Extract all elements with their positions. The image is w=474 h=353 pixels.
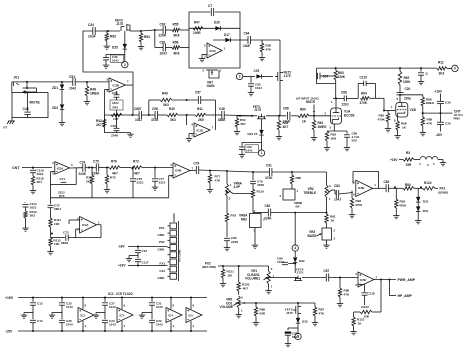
wire R81-VR3: [326, 213, 328, 228]
wire D32-FET4: [294, 263, 296, 273]
capacitor C75: [92, 160, 100, 176]
wire R3-coil: [414, 159, 420, 161]
wire IC4B out: [190, 169, 196, 171]
wire C68 to grid net: [347, 97, 359, 99]
op-amp IC5A: [52, 161, 73, 176]
IC5A feedback loop: [51, 172, 55, 198]
svg-text:J175: J175: [254, 108, 261, 112]
capacitor C71 loop: [51, 168, 77, 185]
capacitor C top: [418, 68, 429, 76]
svg-text:D26: D26: [214, 21, 220, 25]
svg-text:6K8: 6K8: [174, 34, 180, 38]
resistor R62: [398, 68, 411, 85]
svg-text:D33: D33: [302, 320, 308, 324]
wire C61-R56: [166, 47, 173, 49]
svg-text:104U: 104U: [156, 305, 163, 309]
svg-text:220u: 220u: [404, 97, 411, 101]
wire main line stage2: [104, 114, 139, 116]
capacitor C12: [135, 247, 147, 254]
wire to node5: [297, 328, 299, 333]
wire C66-R60: [291, 115, 298, 117]
svg-text:104J: 104J: [255, 86, 262, 90]
capacitor C52: [111, 124, 120, 138]
resistor R65: [378, 111, 390, 123]
svg-text:R79: R79: [231, 214, 237, 218]
svg-text:FX2: FX2: [160, 269, 166, 273]
HP_AMP label: [398, 294, 413, 298]
wire CNT in: [22, 167, 52, 169]
zener ZD4: [416, 202, 429, 213]
transistor FET2 J175: [275, 71, 291, 83]
svg-text:104J: 104J: [246, 149, 253, 153]
pot VR3 bass: [308, 228, 336, 241]
capacitor C119: [30, 168, 44, 177]
ground below R77: [207, 183, 213, 193]
ground below R91: [349, 208, 355, 218]
svg-text:6K8: 6K8: [174, 52, 180, 56]
capacitor C78: [194, 162, 200, 175]
resistor R3: [399, 151, 414, 167]
wire lower tap: [155, 30, 163, 48]
ground below R93: [393, 208, 399, 219]
ground below R52: [234, 127, 240, 135]
wire main to FET1: [237, 115, 257, 117]
connector TO CON1 label: [178, 249, 182, 262]
ground below VR1: [265, 284, 271, 294]
wire C53 stub: [116, 91, 118, 100]
svg-text:ZD3: ZD3: [423, 200, 429, 204]
op-amp IC5D: [356, 272, 378, 287]
node 3: [236, 73, 242, 79]
resistor R118: [31, 173, 44, 185]
svg-text:C61: C61: [160, 41, 166, 45]
svg-text:VOLUME: VOLUME: [220, 305, 233, 309]
op-amp IC3D: [192, 123, 214, 138]
connector CON1 pins: [170, 221, 179, 281]
resistor R86: [254, 303, 266, 316]
svg-text:104J: 104J: [277, 260, 284, 264]
junction riser: [186, 115, 188, 125]
IC4A feedback loop: [97, 225, 102, 238]
svg-text:56R: 56R: [260, 311, 266, 315]
network box 102J R43: [110, 100, 123, 110]
op-amp IC4A: [77, 217, 100, 234]
svg-text:GND: GND: [158, 276, 166, 280]
ground below VR3: [323, 240, 329, 248]
ground below R65: [385, 122, 391, 132]
capacitor C82: [264, 204, 272, 221]
wire FET3 to R54: [130, 30, 163, 31]
wire FET2 source: [279, 82, 281, 116]
wire VR8A gnd: [254, 228, 256, 244]
resistor R52: [235, 116, 246, 127]
svg-text:680J: 680J: [54, 207, 61, 211]
resistor R49: [160, 92, 172, 108]
svg-text:4K7: 4K7: [243, 286, 249, 290]
FX2 return label: [202, 262, 216, 270]
capacitor C80: [224, 236, 239, 244]
svg-text:C48: C48: [219, 107, 225, 111]
svg-text:J175: J175: [297, 271, 304, 275]
wire R55 to box: [180, 29, 189, 31]
zener ZD2: [52, 104, 64, 110]
VR6A wiper: [229, 191, 254, 194]
ground below R45: [276, 130, 282, 140]
wire CNT line: [422, 106, 453, 113]
svg-text:102J: 102J: [30, 206, 37, 210]
wire mute to C48: [27, 93, 29, 112]
wire R40-R41: [178, 114, 195, 116]
resistor R76: [109, 160, 120, 176]
wire IC5B out: [373, 187, 386, 189]
svg-text:R84: R84: [405, 183, 411, 187]
svg-text:4: 4: [294, 246, 296, 250]
resistor R44 10K: [111, 113, 122, 121]
ground below R89: [420, 126, 426, 136]
wire C76 to bus: [132, 181, 134, 198]
wire D24 down: [242, 135, 262, 142]
svg-text:IC3B: IC3B: [113, 84, 120, 88]
capacitors C25 C26: [49, 298, 73, 332]
node 4: [292, 245, 298, 251]
op-amp IC5 power: [186, 298, 202, 332]
resistor R55: [172, 23, 180, 38]
wire C887-C58: [142, 114, 156, 116]
svg-text:104J: 104J: [160, 52, 167, 56]
CNT label: [454, 109, 464, 120]
svg-text:472K: 472K: [151, 118, 159, 122]
svg-text:R56: R56: [173, 41, 179, 45]
svg-text:R76: R76: [111, 160, 117, 164]
svg-text:R49: R49: [162, 92, 168, 96]
capacitor C48: [23, 107, 31, 115]
svg-text:R3: R3: [406, 151, 410, 155]
CNT input label: [12, 166, 20, 170]
svg-text:R122: R122: [362, 305, 370, 309]
svg-text:R124: R124: [424, 181, 432, 185]
svg-text:4K7: 4K7: [37, 180, 43, 184]
svg-text:D25: D25: [112, 46, 118, 50]
grid loop C115: [358, 76, 375, 99]
labels 222J R70: [58, 190, 65, 198]
C114 branch: [24, 201, 26, 204]
IC5B feedback box: [353, 172, 379, 189]
feedback box IC3A: [189, 12, 240, 68]
ground below VR8A: [252, 244, 258, 249]
wire R119 down: [252, 198, 254, 213]
wire C75-R76: [99, 167, 109, 169]
svg-text:47K: 47K: [344, 292, 350, 296]
wire VR2 bottom: [326, 197, 328, 213]
wire R25 to bus: [91, 184, 93, 198]
svg-text:104U: 104U: [66, 305, 73, 309]
svg-text:D32: D32: [299, 259, 305, 263]
ground below C96: [239, 149, 245, 157]
diode D32: [293, 257, 305, 263]
riser to pin2: [76, 229, 80, 238]
svg-text:J175: J175: [284, 74, 291, 78]
resistor R40: [167, 107, 178, 122]
svg-text:IC2 - IC5 TL022: IC2 - IC5 TL022: [108, 292, 133, 296]
svg-text:/77: /77: [3, 126, 8, 130]
capacitor C73: [61, 230, 69, 244]
svg-text:1M: 1M: [228, 273, 233, 277]
svg-text:C12: C12: [142, 249, 148, 253]
svg-text:10uF: 10uF: [88, 35, 96, 39]
svg-text:CNT: CNT: [12, 166, 20, 170]
svg-text:C57: C57: [195, 91, 201, 95]
svg-text:R119: R119: [257, 190, 264, 194]
svg-text:-15V: -15V: [5, 330, 13, 334]
tube V1A ECC83: [325, 100, 355, 130]
wire C36-gnd: [105, 60, 107, 64]
wire FET5-D33: [297, 315, 299, 318]
svg-text:R41: R41: [197, 107, 203, 111]
wire coil-gnd: [438, 160, 443, 162]
capacitor C83: [334, 184, 341, 202]
resistor R88: [338, 278, 350, 298]
wire R41-C49: [206, 114, 222, 116]
svg-text:224K: 224K: [231, 240, 239, 244]
mute loop box: [12, 93, 48, 118]
svg-text:V1B: V1B: [410, 108, 417, 112]
-15V label: [5, 330, 13, 334]
svg-text:C83: C83: [334, 184, 340, 188]
wire FET2 drain: [279, 40, 281, 71]
capacitor C39: [437, 94, 451, 114]
resistor R60: [298, 108, 309, 124]
connector J01 input jack: [12, 76, 19, 93]
wire node3-C29: [243, 75, 255, 77]
svg-text:R63: R63: [110, 35, 116, 39]
capacitor C96 104J: [239, 142, 259, 152]
wire R76-R73: [120, 167, 131, 169]
ground below C36: [103, 64, 109, 69]
svg-text:IC3: IC3: [120, 314, 125, 318]
svg-text:10K: 10K: [364, 315, 370, 319]
wire V1A plate lead: [335, 98, 337, 108]
wire jack tip to C51: [12, 81, 73, 83]
wire zener branch: [61, 82, 63, 84]
+16V heater label: [390, 158, 398, 162]
resistor R81: [325, 214, 336, 223]
wire C64-FET2: [250, 39, 280, 41]
svg-text:C117: C117: [142, 261, 149, 265]
resistor R87: [313, 303, 325, 316]
svg-text:15R: 15R: [406, 163, 412, 167]
svg-text:GND: GND: [158, 247, 166, 251]
svg-text:BASS: BASS: [308, 234, 317, 238]
svg-text:C115: C115: [360, 76, 368, 80]
inductor L1: [419, 157, 438, 167]
svg-text:R40: R40: [169, 107, 175, 111]
svg-text:C78: C78: [194, 162, 200, 166]
+16V label mid: [118, 264, 126, 268]
svg-text:P62: P62: [159, 240, 165, 244]
capacitor C64: [243, 32, 250, 49]
wire grid to V1B: [375, 98, 395, 110]
wire branch to D25: [124, 31, 126, 44]
pot VR5 volume: [220, 296, 246, 313]
wire R79-C80: [226, 222, 228, 237]
svg-text:C52: C52: [111, 124, 117, 128]
ground below R63: [104, 41, 110, 49]
svg-text:FX1: FX1: [160, 262, 166, 266]
box rail R47 D26: [189, 27, 240, 29]
wire feedback IC5D: [372, 280, 381, 313]
wire ZD2-gnd: [61, 110, 63, 121]
resistor R42: [96, 119, 106, 127]
svg-text:470K: 470K: [399, 203, 407, 207]
svg-text:VOLUME1: VOLUME1: [245, 277, 260, 281]
svg-text:47K: 47K: [427, 121, 433, 125]
svg-text:C887: C887: [134, 107, 142, 111]
svg-text:IC4A: IC4A: [82, 223, 88, 227]
wire C78 right: [199, 170, 269, 172]
diode D26: [214, 21, 221, 31]
svg-text:C48: C48: [23, 107, 29, 111]
capacitor C51: [69, 75, 76, 91]
ground below ZD2: [59, 121, 65, 126]
resistor R11: [437, 61, 447, 76]
ground below R92: [324, 141, 330, 151]
+15V label: [5, 296, 14, 300]
wire IC4A plus stub: [69, 220, 80, 224]
svg-text:224K: 224K: [92, 172, 100, 176]
resistor R68: [396, 121, 407, 130]
svg-text:3K2: 3K2: [30, 214, 36, 218]
wire C62-R55: [166, 29, 173, 31]
resistor R41: [195, 107, 206, 122]
svg-text:470K: 470K: [360, 101, 368, 105]
capacitor C86 4u7: [344, 131, 360, 143]
svg-text:R60: R60: [300, 108, 306, 112]
wire R56 to box: [180, 47, 189, 49]
svg-text:C67: C67: [323, 75, 329, 79]
svg-text:2K5: 2K5: [86, 179, 92, 183]
wire IC3B feedback right: [132, 85, 134, 115]
svg-text:HP_AMP: HP_AMP: [398, 294, 413, 298]
resistor R77: [208, 171, 221, 184]
node 5: [295, 333, 301, 339]
svg-text:IC5: IC5: [189, 314, 194, 318]
wire bottom of block: [104, 132, 130, 134]
wire C91-R80 node: [272, 171, 327, 173]
svg-text:ZD1: ZD1: [52, 86, 58, 90]
diode C29: [254, 69, 262, 79]
svg-text:C91: C91: [266, 164, 272, 168]
svg-text:IC5A: IC5A: [57, 167, 63, 171]
node 2: [122, 55, 128, 68]
resistor R111: [49, 208, 61, 227]
diode D17: [224, 33, 231, 42]
ground below C52: [127, 133, 133, 138]
resistor R75: [105, 168, 116, 185]
svg-text:-16V: -16V: [436, 133, 444, 137]
resistor R59: [260, 40, 272, 52]
ground below C80: [224, 241, 230, 251]
svg-text:C82: C82: [265, 204, 271, 208]
capacitor C74: [79, 161, 87, 176]
capacitors C27 C24: [93, 298, 116, 332]
pot VR1 volume: [245, 266, 275, 289]
resistor R113: [24, 207, 37, 218]
capacitor C91: [265, 164, 273, 181]
wire C51 to IC3B: [75, 81, 109, 83]
svg-text:C73: C73: [63, 230, 69, 234]
wire IC5A out: [70, 167, 83, 169]
resistor R121: [221, 266, 234, 278]
ground mid connector: [126, 257, 132, 262]
capacitor C58: [151, 107, 159, 122]
jack switch contacts: [23, 81, 37, 94]
wire FET4-C87: [302, 277, 326, 279]
svg-text:47K: 47K: [215, 178, 221, 182]
wire feedback riser: [148, 100, 150, 115]
wire VR6A bottom: [226, 196, 228, 213]
resistor R92 cathode: [325, 131, 336, 141]
svg-text:C62: C62: [160, 23, 166, 27]
svg-text:2K9: 2K9: [198, 118, 204, 122]
wire -15V rail: [18, 330, 207, 332]
svg-text:332J: 332J: [37, 172, 44, 176]
svg-text:472K: 472K: [265, 176, 273, 180]
ground below R59: [259, 52, 265, 61]
capacitor C67: [317, 68, 336, 84]
wire to node4: [294, 213, 296, 245]
svg-text:3K3: 3K3: [439, 72, 445, 76]
svg-text:5: 5: [297, 335, 299, 339]
wire C73 line: [51, 237, 102, 239]
svg-text:R43: R43: [113, 106, 119, 110]
pot VR2 treble: [304, 172, 332, 201]
svg-text:100R: 100R: [193, 31, 201, 35]
box rail D17: [213, 39, 240, 41]
wire C87-IC5D: [329, 277, 358, 279]
svg-text:C71: C71: [60, 177, 66, 181]
-16V label: [436, 133, 444, 137]
terminal node 6: [447, 65, 458, 71]
svg-text:476K: 476K: [257, 183, 265, 187]
svg-text:102J: 102J: [112, 101, 119, 105]
anode rail: [317, 67, 437, 69]
svg-text:ZD2: ZD2: [52, 106, 58, 110]
capacitor C30: [437, 113, 451, 131]
PWR_AMP label: [398, 278, 416, 282]
cathode V1A: [327, 124, 347, 131]
diode D24: [248, 119, 264, 136]
transistor FET1 J175: [253, 105, 266, 119]
gain pot VR7: [203, 69, 222, 89]
connector COND label: [172, 213, 176, 222]
resistor R93: [395, 188, 407, 208]
capacitor C76: [130, 168, 144, 185]
wire C29-FET2 gate: [262, 75, 273, 77]
VR1 wiper: [264, 277, 299, 280]
ground below R123: [350, 326, 356, 335]
wire R48-gnd: [86, 96, 88, 100]
svg-text:ECC83: ECC83: [344, 114, 355, 118]
svg-text:C39: C39: [445, 101, 451, 105]
svg-text:C51: C51: [69, 75, 75, 79]
svg-text:C30: C30: [445, 121, 451, 125]
capacitor C84: [384, 180, 390, 192]
wire box out rail: [240, 39, 248, 41]
svg-text:PWR_AMP: PWR_AMP: [398, 278, 416, 282]
wire R84-R124: [414, 187, 423, 189]
svg-text:C66: C66: [283, 107, 289, 111]
wire bias rail: [400, 94, 423, 96]
